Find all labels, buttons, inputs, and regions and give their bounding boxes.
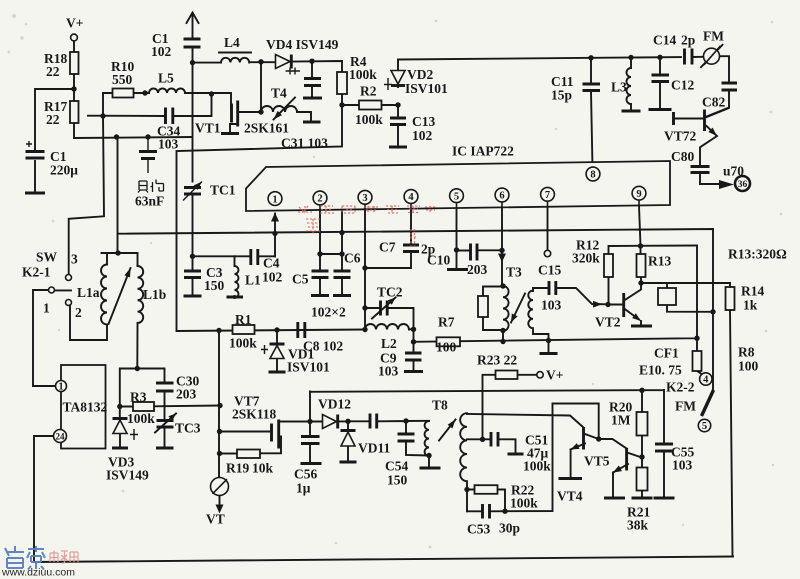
svg-text:C14: C14	[653, 33, 676, 48]
svg-text:100k: 100k	[523, 459, 551, 474]
svg-text:102: 102	[262, 270, 283, 285]
svg-text:C7: C7	[379, 240, 396, 255]
svg-text:K2-2: K2-2	[666, 380, 695, 395]
svg-text:TC1: TC1	[210, 183, 236, 198]
svg-text:VD2: VD2	[407, 67, 433, 82]
svg-text:1: 1	[272, 194, 277, 205]
svg-text:L2: L2	[381, 336, 397, 351]
svg-text:L1b: L1b	[143, 287, 166, 302]
svg-text:150: 150	[204, 278, 225, 293]
svg-text:C6: C6	[344, 251, 361, 266]
svg-text:3: 3	[362, 193, 367, 204]
svg-text:22: 22	[46, 64, 60, 79]
svg-text:R2: R2	[360, 84, 377, 99]
svg-text:2p: 2p	[681, 33, 695, 48]
svg-text:L1a: L1a	[77, 285, 100, 300]
svg-text:C54: C54	[385, 459, 408, 474]
svg-text:VT: VT	[206, 512, 225, 527]
svg-text:320k: 320k	[572, 251, 600, 266]
svg-text:2SK161: 2SK161	[244, 121, 289, 136]
svg-text:VT1: VT1	[195, 121, 221, 136]
svg-text:TC3: TC3	[175, 421, 201, 436]
svg-text:R23 22: R23 22	[477, 353, 517, 368]
svg-text:102×2: 102×2	[311, 305, 346, 320]
svg-text:VT5: VT5	[584, 454, 610, 469]
svg-text:38k: 38k	[627, 518, 649, 533]
svg-text:36: 36	[738, 180, 748, 190]
svg-text:L5: L5	[158, 71, 174, 86]
svg-text:FM: FM	[703, 29, 724, 44]
svg-text:ISV101: ISV101	[287, 360, 330, 375]
svg-text:u70: u70	[723, 164, 744, 179]
svg-text:220μ: 220μ	[50, 163, 78, 178]
svg-text:5: 5	[454, 191, 459, 202]
svg-text:7: 7	[545, 190, 550, 201]
svg-text:9: 9	[636, 189, 641, 200]
svg-text:R13:320Ω: R13:320Ω	[728, 247, 787, 262]
svg-text:C5: C5	[292, 272, 309, 287]
svg-text:C31 103: C31 103	[281, 136, 328, 151]
svg-text:3: 3	[71, 252, 78, 267]
svg-text:8: 8	[590, 170, 595, 181]
svg-text:C53: C53	[467, 522, 490, 537]
svg-text:550: 550	[112, 72, 133, 87]
svg-text:103: 103	[541, 298, 562, 313]
svg-text:1M: 1M	[611, 413, 631, 428]
svg-text:VD12: VD12	[318, 397, 351, 412]
svg-text:VD4 ISV149: VD4 ISV149	[266, 37, 339, 52]
svg-text:4: 4	[408, 192, 414, 203]
svg-text:150: 150	[387, 473, 408, 488]
svg-text:VT72: VT72	[664, 129, 697, 144]
svg-text:VD11: VD11	[358, 441, 391, 456]
svg-text:TA8132: TA8132	[63, 400, 108, 415]
svg-text:C13: C13	[412, 114, 435, 129]
svg-text:R19: R19	[226, 461, 249, 476]
svg-text:CF1: CF1	[654, 346, 679, 361]
svg-text:2: 2	[75, 305, 82, 320]
svg-text:T3: T3	[506, 265, 522, 280]
svg-text:SW: SW	[36, 250, 58, 265]
svg-text:1μ: 1μ	[296, 481, 311, 496]
svg-text:22: 22	[46, 112, 60, 127]
svg-text:10k: 10k	[252, 461, 274, 476]
svg-text:T4: T4	[271, 86, 287, 101]
svg-text:www.dziuu.com: www.dziuu.com	[1, 567, 75, 579]
svg-text:T8: T8	[432, 398, 448, 413]
svg-text:R3: R3	[130, 390, 147, 405]
svg-text:24: 24	[56, 432, 66, 442]
svg-text:103: 103	[378, 364, 399, 379]
svg-text:ISV149: ISV149	[106, 468, 149, 483]
svg-text:2SK118: 2SK118	[232, 407, 277, 422]
svg-text:VT4: VT4	[557, 489, 583, 504]
svg-text:ISV101: ISV101	[405, 81, 448, 96]
svg-text:100: 100	[738, 359, 759, 374]
svg-text:C15: C15	[538, 263, 561, 278]
svg-text:5: 5	[702, 421, 707, 432]
svg-text:30p: 30p	[499, 521, 520, 536]
svg-text:R7: R7	[438, 315, 455, 330]
svg-text:102: 102	[151, 44, 172, 59]
svg-text:E10. 75: E10. 75	[639, 363, 682, 378]
svg-text:103: 103	[158, 137, 179, 152]
svg-text:15p: 15p	[551, 88, 572, 103]
svg-text:R1: R1	[235, 312, 252, 327]
svg-text:V+: V+	[546, 368, 563, 383]
svg-text:100k: 100k	[349, 67, 377, 82]
svg-text:C12: C12	[671, 78, 694, 93]
svg-text:4: 4	[703, 375, 709, 386]
svg-text:IC IAP722: IC IAP722	[452, 144, 514, 159]
svg-text:C56: C56	[294, 467, 317, 482]
svg-text:1: 1	[58, 382, 63, 393]
svg-text:C10: C10	[427, 253, 450, 268]
svg-text:TC2: TC2	[377, 285, 403, 300]
svg-text:100k: 100k	[355, 112, 383, 127]
svg-text:C80: C80	[671, 149, 694, 164]
svg-text:203: 203	[467, 262, 488, 277]
svg-text:100k: 100k	[229, 336, 257, 351]
svg-text:R8: R8	[738, 345, 755, 360]
svg-text:L1: L1	[245, 273, 261, 288]
svg-text:V+: V+	[66, 16, 83, 31]
svg-text:203: 203	[176, 387, 197, 402]
svg-text:L4: L4	[224, 35, 240, 50]
svg-text:L3: L3	[611, 80, 627, 95]
svg-text:1: 1	[43, 301, 50, 316]
svg-text:6: 6	[499, 191, 504, 202]
svg-text:100k: 100k	[510, 496, 538, 511]
svg-text:C4: C4	[263, 256, 280, 271]
svg-text:102: 102	[412, 128, 433, 143]
svg-text:R14: R14	[741, 284, 764, 299]
svg-text:FM: FM	[675, 399, 696, 414]
svg-text:100: 100	[436, 340, 457, 355]
svg-text:63nF: 63nF	[135, 194, 164, 209]
svg-text:2: 2	[317, 194, 322, 205]
svg-text:1k: 1k	[743, 298, 758, 313]
svg-text:103: 103	[672, 458, 693, 473]
svg-text:K2-1: K2-1	[22, 265, 51, 280]
svg-text:R13: R13	[648, 254, 671, 269]
svg-text:100k: 100k	[127, 411, 155, 426]
svg-text:VT2: VT2	[595, 315, 621, 330]
svg-text:C82: C82	[702, 95, 725, 110]
